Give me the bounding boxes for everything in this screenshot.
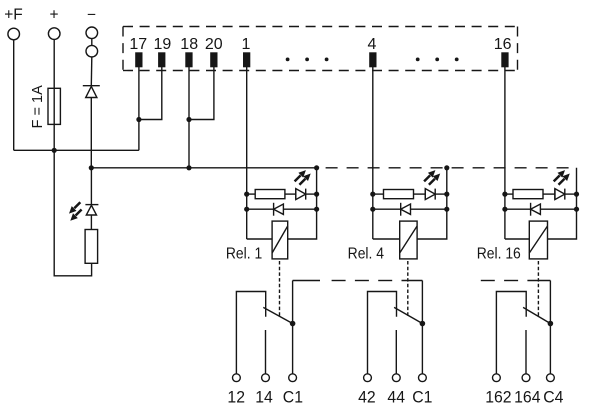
wire K1 actuate dashed xyxy=(279,261,281,318)
wire pin1 down xyxy=(246,66,248,239)
node rel1 right D junction xyxy=(314,207,319,212)
wire R1 to LED xyxy=(285,193,296,195)
diode D1 xyxy=(83,86,100,98)
contact set 4 xyxy=(358,281,432,407)
wire rel16 D line right xyxy=(540,208,576,210)
pin 19 xyxy=(158,52,165,67)
wire rel1 left coil link xyxy=(247,238,272,240)
svg-text:19: 19 xyxy=(154,36,172,53)
node rel16 right R junction xyxy=(574,192,579,197)
node minus bus junction xyxy=(89,165,94,170)
pin 4 xyxy=(369,52,376,67)
node rel4 left D junction xyxy=(370,207,375,212)
wire pin16 down xyxy=(504,66,506,239)
wire LED to right xyxy=(435,193,447,195)
svg-text:16: 16 xyxy=(494,36,512,53)
wire rel4 D line right xyxy=(411,208,447,210)
common bus C4 dashed xyxy=(481,280,551,282)
wire rel4 D line left xyxy=(373,208,401,210)
LED rel16 xyxy=(555,189,565,200)
node rel16 left D junction xyxy=(502,207,507,212)
LED rel4 xyxy=(425,189,435,200)
resistor R1 xyxy=(255,190,285,199)
svg-text:162: 162 xyxy=(485,388,511,407)
relay 16 driver xyxy=(477,168,579,318)
terminal C4 xyxy=(547,374,555,382)
wire NC 42 bracket xyxy=(368,292,397,374)
svg-text:4: 4 xyxy=(367,36,376,53)
node rel1 left D junction xyxy=(244,207,249,212)
LED rel4 arrows xyxy=(424,170,440,185)
svg-text:44: 44 xyxy=(387,388,405,407)
terminal 14 xyxy=(262,374,270,382)
wire +F down xyxy=(13,40,15,150)
wire NO 14 xyxy=(265,330,267,374)
relay coil K4 xyxy=(400,221,417,259)
wire NC 162 bracket xyxy=(496,292,526,374)
terminal +F xyxy=(8,28,20,40)
ellipsis dots left xyxy=(286,58,329,62)
svg-text:17: 17 xyxy=(129,36,147,53)
resistor R0 xyxy=(85,230,98,264)
svg-text:42: 42 xyxy=(358,388,376,407)
switch arm sw1 xyxy=(263,307,292,323)
node rel16 left R junction xyxy=(502,192,507,197)
node sw1 pivot xyxy=(290,321,296,327)
wire minus to bus xyxy=(90,98,92,168)
wire +F bus xyxy=(14,149,139,151)
relay 1 driver xyxy=(226,165,319,318)
wire C1b riser xyxy=(421,281,423,374)
node 18/20 junction xyxy=(186,117,191,122)
svg-text:+: + xyxy=(49,7,58,24)
wire NO 44 xyxy=(395,330,397,374)
wire minus down xyxy=(90,57,93,85)
terminal + xyxy=(48,28,60,40)
node rel1 right R junction xyxy=(314,192,319,197)
wire minus link xyxy=(91,39,93,45)
wire rel1 right vertical xyxy=(288,168,317,239)
terminal 12 xyxy=(233,374,241,382)
wire minus bus solid xyxy=(91,167,316,169)
wire R16 to LED xyxy=(543,193,555,195)
relay coil K1 xyxy=(272,221,288,259)
node 17/19 junction xyxy=(136,117,141,122)
wire K16 actuate dashed xyxy=(537,261,539,318)
svg-text:C1: C1 xyxy=(412,388,432,407)
terminal C1b xyxy=(419,374,427,382)
LED rel16 arrows xyxy=(554,170,570,185)
resistor R4 xyxy=(384,190,414,199)
node rel4 right D junction xyxy=(444,207,449,212)
pin 18 xyxy=(185,52,192,67)
node rel1 bus junction xyxy=(314,165,319,170)
wire minus bus dashed xyxy=(317,167,577,169)
wire pin19 down xyxy=(139,66,162,120)
wire LED1 to R0 xyxy=(90,215,92,230)
wire rel16 R line xyxy=(505,193,513,195)
diode rel4 freewheel xyxy=(401,203,411,216)
wire rel1 D line left xyxy=(247,208,274,210)
wire R4 to LED xyxy=(414,193,426,195)
relay 4 driver xyxy=(348,165,450,318)
svg-text:Rel. 1: Rel. 1 xyxy=(226,245,262,263)
node +F/+ junction xyxy=(52,148,57,153)
ellipsis dots right xyxy=(416,58,459,62)
node rel4 left R junction xyxy=(370,192,375,197)
node rel4 bus junction xyxy=(444,165,449,170)
diode rel1 freewheel xyxy=(274,203,284,216)
svg-text:F = 1A: F = 1A xyxy=(30,85,46,128)
svg-text:1: 1 xyxy=(242,36,251,53)
node sw16 pivot xyxy=(548,321,554,327)
wire C4 riser xyxy=(549,281,551,374)
wire pin20 down xyxy=(189,66,214,120)
connector X1 dashed outline xyxy=(123,27,518,71)
wire + lower xyxy=(54,150,91,275)
wire rel16 D line left xyxy=(505,208,531,210)
terminal minus upper xyxy=(86,27,98,39)
wire NC 12 bracket xyxy=(236,292,265,374)
contact set 16 xyxy=(485,281,563,407)
svg-text:164: 164 xyxy=(514,388,540,407)
svg-text:18: 18 xyxy=(180,36,198,53)
wire rel1 D line right xyxy=(283,208,316,210)
contact set 1 xyxy=(227,281,303,407)
wire rel16 right vertical xyxy=(548,168,577,239)
wire rel1 R line xyxy=(247,193,256,195)
wire LED to right xyxy=(306,193,317,195)
pin 16 xyxy=(501,52,508,67)
svg-text:C1: C1 xyxy=(283,388,303,407)
node rel16 right D junction xyxy=(574,207,579,212)
pin 20 xyxy=(210,52,217,67)
svg-text:20: 20 xyxy=(205,36,223,53)
wire + down xyxy=(53,40,55,151)
node rel4 right R junction xyxy=(444,192,449,197)
svg-text:+F: +F xyxy=(4,7,23,24)
wire pin18 down xyxy=(188,66,190,168)
relay coil K16 xyxy=(529,221,547,259)
svg-text:Rel. 4: Rel. 4 xyxy=(348,245,384,263)
wire rel16 left coil link xyxy=(505,238,529,240)
common bus C1 dashed xyxy=(293,280,423,282)
pin 17 xyxy=(135,52,142,67)
node 18 bus junction xyxy=(186,165,191,170)
terminal 42 xyxy=(364,374,372,382)
svg-text:12: 12 xyxy=(227,388,245,407)
diode rel16 freewheel xyxy=(531,203,541,216)
wire LED to right xyxy=(565,193,577,195)
fuse F1 xyxy=(48,88,60,124)
svg-text:14: 14 xyxy=(255,388,273,407)
node sw4 pivot xyxy=(420,321,426,327)
wire K4 actuate dashed xyxy=(407,261,409,318)
wire pin17 down xyxy=(138,66,140,150)
pin 1 xyxy=(243,52,250,67)
wire NO 164 xyxy=(525,330,527,374)
switch arm sw16 xyxy=(523,307,550,323)
resistor R16 xyxy=(513,190,543,199)
terminal 44 xyxy=(392,374,400,382)
LED1 power indicator xyxy=(85,168,98,215)
wire rel4 right vertical xyxy=(417,168,447,239)
terminal minus lower xyxy=(86,45,98,57)
wire rel4 left coil link xyxy=(373,238,400,240)
svg-text:−: − xyxy=(87,7,96,24)
svg-text:C4: C4 xyxy=(543,388,563,407)
wire pin4 down xyxy=(372,66,374,239)
wire rel4 R line xyxy=(373,193,384,195)
svg-text:Rel. 16: Rel. 16 xyxy=(477,245,521,263)
terminal 164 xyxy=(522,374,530,382)
LED rel1 xyxy=(296,189,306,200)
node rel1 left R junction xyxy=(244,192,249,197)
LED1 arrows xyxy=(69,202,82,221)
LED rel1 arrows xyxy=(295,170,311,185)
wire C1 riser xyxy=(292,281,294,374)
switch arm sw4 xyxy=(394,307,422,323)
terminal C1 xyxy=(289,374,297,382)
terminal 162 xyxy=(493,374,501,382)
